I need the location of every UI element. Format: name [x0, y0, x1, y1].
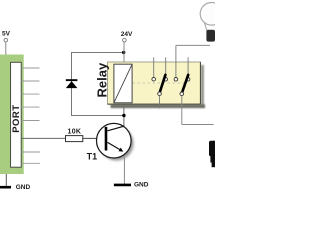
- relay shadow right: [201, 65, 204, 108]
- emitter arrowhead: [119, 148, 124, 152]
- relay dark bottom edge: [108, 103, 201, 105]
- svg-text:GND: GND: [16, 184, 31, 191]
- wire emitter to ground: [123, 148, 125, 184]
- wire to mains right: [182, 124, 214, 126]
- transistor base bar: [105, 127, 108, 151]
- port pin 4: [21, 106, 39, 108]
- svg-text:GND: GND: [134, 182, 149, 189]
- wire pole 2 down: [181, 96, 183, 125]
- relay shadow bottom: [111, 104, 206, 108]
- relay pole circle 1: [158, 92, 162, 96]
- ground bar left: [0, 186, 11, 189]
- port pin 5: [21, 120, 39, 122]
- lamp neck: [204, 22, 207, 31]
- relay pole circle 2: [180, 92, 184, 96]
- svg-text:24V: 24V: [121, 31, 133, 38]
- relay top pin stub 2: [165, 57, 167, 77]
- wire 24V to relay coil: [123, 42, 125, 65]
- mains plug (cut off): [209, 141, 215, 168]
- wire 5V to port: [5, 42, 7, 55]
- wire resistor to transistor base: [83, 137, 105, 139]
- diode triangle: [66, 81, 78, 88]
- wire port to resistor: [21, 137, 65, 139]
- relay contact circle 2: [164, 78, 168, 82]
- relay contact circle 1: [152, 77, 156, 81]
- transistor T1 body: [97, 123, 132, 158]
- port IC green body: [0, 55, 24, 175]
- svg-text:T1: T1: [87, 152, 98, 162]
- 5V terminal circle: [4, 38, 8, 42]
- lamp screw base: [206, 30, 215, 42]
- junction node collector: [122, 114, 125, 117]
- relay bottom stub 1: [159, 96, 161, 109]
- relay coil diagonal: [114, 64, 132, 103]
- relay coil rect: [114, 64, 132, 103]
- svg-text:Relay: Relay: [94, 62, 109, 97]
- resistor 10K body: [66, 136, 83, 142]
- port pin 2: [21, 80, 39, 82]
- flyback diode loop wire: [72, 53, 124, 116]
- port pin 8: [21, 162, 40, 164]
- port pin 1: [21, 67, 39, 69]
- lamp bulb glass: [200, 3, 223, 26]
- switch blade 1: [160, 75, 166, 92]
- junction node top: [122, 51, 125, 54]
- relay body: [108, 62, 201, 104]
- port pin 3: [21, 93, 39, 95]
- lamp wire horizontal: [176, 44, 210, 46]
- svg-text:10K: 10K: [68, 129, 82, 136]
- port header white rect: [11, 62, 22, 167]
- port pin 7: [21, 151, 40, 153]
- svg-text:PORT: PORT: [11, 104, 22, 132]
- relay top pin stub 1: [153, 57, 155, 77]
- 24V terminal circle: [123, 38, 127, 42]
- diode cathode bar: [66, 79, 78, 81]
- relay contact circle 4: [186, 78, 190, 82]
- mechanical link dashed: [133, 82, 187, 84]
- transistor emitter line: [108, 142, 121, 150]
- svg-text:5V: 5V: [2, 30, 11, 37]
- relay contact circle 3: [174, 78, 178, 82]
- switch blade 2: [182, 75, 188, 93]
- transistor T1 shadow: [99, 126, 133, 160]
- transistor collector line: [108, 126, 125, 131]
- ground bar middle: [114, 184, 131, 187]
- wire relay coil to collector junction: [123, 102, 125, 127]
- wire port to ground: [0, 174, 6, 187]
- relay top pin stub 4: [187, 57, 189, 77]
- relay top pin stub 3 (to lamp): [175, 45, 177, 77]
- relay dark right edge: [199, 62, 201, 104]
